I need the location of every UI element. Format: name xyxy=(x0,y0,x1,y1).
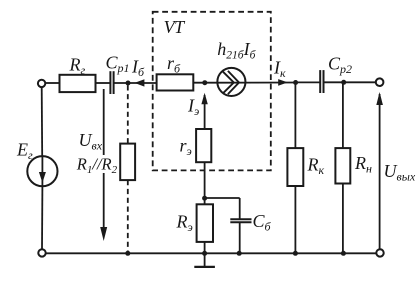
source Eg arrowhead xyxy=(39,172,46,183)
terminal output top xyxy=(376,78,384,86)
voltage Uvx arrowhead (points down) xyxy=(100,227,107,241)
svg-text:VT: VT xyxy=(164,17,186,37)
junction dot rail Rn xyxy=(341,251,346,256)
wire emitter node to Re xyxy=(204,198,206,204)
capacitor Cb plate top xyxy=(230,218,251,220)
wire output node down to Rn xyxy=(342,82,344,148)
current source chevron left xyxy=(223,71,234,93)
ground stub xyxy=(204,253,206,267)
capacitor Cp1 plate right xyxy=(113,71,115,94)
wire rb to current source xyxy=(193,82,218,84)
wire Rk to bottom rail xyxy=(294,186,296,253)
transistor VT dashed box xyxy=(153,12,271,171)
resistor re xyxy=(196,129,211,162)
wire Cp2 to output terminal xyxy=(324,81,376,83)
capacitor Cp1 plate left xyxy=(109,71,111,94)
source Eg circle xyxy=(27,156,57,186)
current Ik arrowhead (points right) xyxy=(278,79,288,86)
junction dot rail Re/ground xyxy=(202,251,207,256)
wire bottom rail xyxy=(46,252,377,254)
wire collector node to Cp2 xyxy=(296,81,320,83)
current Ib arrowhead (points left) xyxy=(135,79,145,86)
current source chevron right xyxy=(228,71,239,94)
wire R1//R2 dashed top xyxy=(127,85,129,143)
capacitor Cp2 plate left xyxy=(319,70,321,93)
wire left rail upper (terminal to Eg) xyxy=(41,87,44,156)
resistor Rn xyxy=(335,148,350,183)
node output top junction dot xyxy=(341,80,346,85)
resistor Rk xyxy=(287,148,303,186)
wire collector node down to Rk xyxy=(294,83,296,149)
voltage Uvyx arrow shaft xyxy=(379,94,381,249)
capacitor Cp2 plate right xyxy=(323,70,325,93)
ground bar xyxy=(194,266,215,268)
junction dot rail R1//R2 xyxy=(125,251,130,256)
wire Rn to bottom rail xyxy=(342,184,344,254)
voltage Uvx arrow shaft xyxy=(103,89,105,229)
label white mask under R1//R2 xyxy=(99,155,118,173)
capacitor Cb plate bottom xyxy=(230,221,251,223)
resistor R1//R2 xyxy=(120,144,135,181)
junction dot rail Rk xyxy=(293,251,298,256)
resistor Rg xyxy=(60,75,96,92)
wire Cb bottom xyxy=(239,222,241,253)
terminal input top xyxy=(38,80,45,87)
node E junction dot (rb / re / source) xyxy=(202,80,207,85)
wire Cp1 to node B xyxy=(114,82,157,84)
wire R1//R2 dashed bottom xyxy=(127,180,129,253)
wire emitter node to Cb xyxy=(205,197,240,199)
junction dot rail Cb xyxy=(237,251,242,256)
current source h21b*Ib circle xyxy=(217,68,245,96)
wire re to emitter node xyxy=(204,162,206,198)
wire left rail lower (Eg to bottom terminal) xyxy=(41,186,43,249)
wire Cb top xyxy=(239,198,241,219)
wire Re to bottom rail xyxy=(204,242,206,253)
voltage Uvyx arrowhead (points up) xyxy=(376,92,383,105)
resistor rb xyxy=(157,74,194,90)
wire node E down to re xyxy=(204,95,206,129)
wire current source to collector node xyxy=(218,82,296,84)
terminal output bottom xyxy=(376,249,383,256)
node B junction dot xyxy=(126,81,131,86)
svg-text:R1//R2: R1//R2 xyxy=(76,155,118,176)
wire Rg to Cp1 xyxy=(96,82,111,84)
node emitter junction dot xyxy=(202,196,207,201)
source Eg arrow shaft xyxy=(41,156,43,186)
node collector junction dot xyxy=(293,80,298,85)
current Ie arrowhead (points up) xyxy=(201,93,207,105)
wire top rail left: input terminal to Rg xyxy=(45,82,59,84)
resistor Re xyxy=(197,204,213,242)
terminal input bottom xyxy=(38,249,45,256)
